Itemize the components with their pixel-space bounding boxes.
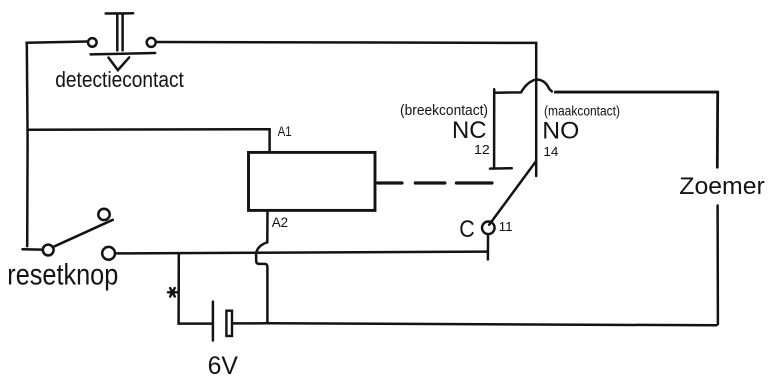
switch resetknop [43,209,115,260]
wire zoemer right upper [716,92,719,167]
switch detectiecontact [88,13,156,70]
wire left vertical [26,43,29,246]
svg-text:11: 11 [499,220,513,234]
wire bus horizontal [117,252,487,254]
relay coil K1 [249,152,376,210]
svg-text:12: 12 [474,142,490,157]
wire C lead tick [487,235,490,260]
wire zoemer right lower [716,206,719,325]
svg-text:NC: NC [452,117,486,144]
svg-text:14: 14 [543,144,558,159]
switch blade C to NO [489,162,536,225]
terminal NC 12 [490,89,512,168]
wire battery drop [179,253,212,323]
svg-text:A1: A1 [278,124,292,139]
wire hop over NO feed [494,80,552,93]
wire zoemer top horizontal [555,91,717,94]
svg-text:detectiecontact: detectiecontact [55,67,184,92]
wire top-left horizontal [27,42,88,43]
wire top horizontal [157,41,536,44]
wire stub to resetknop [23,248,42,251]
svg-text:resetknop: resetknop [7,259,118,292]
asterisk [168,288,177,297]
wire bottom [233,323,716,325]
wire A2 with hop [256,210,267,323]
wire A1 [28,129,270,152]
svg-text:Zoemer: Zoemer [679,173,765,200]
svg-text:NO: NO [542,117,579,144]
wire NO feed vertical [535,43,538,176]
battery B1 6V [213,302,232,341]
svg-text:A2: A2 [272,215,289,230]
contact C terminal 11 [482,222,495,235]
svg-text:6V: 6V [208,352,239,379]
svg-text:C: C [459,216,475,243]
dashed link coil to contact [378,181,492,184]
